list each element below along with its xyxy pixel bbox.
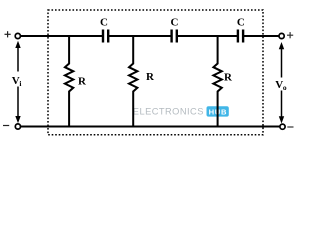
- svg-text:C: C: [100, 16, 108, 28]
- resistor R2: [129, 35, 137, 128]
- wire top: input terminal to C1: [20, 35, 103, 37]
- svg-text:R: R: [146, 71, 155, 83]
- capacitor C1: [103, 30, 108, 43]
- label Vo: [275, 79, 287, 92]
- wire bottom rail: [21, 126, 281, 128]
- terminal bottom-right (− output): [280, 124, 285, 129]
- terminal top-right (+ output): [279, 33, 284, 38]
- arrow Vi (input voltage, double headed): [15, 41, 20, 123]
- svg-text:C: C: [171, 16, 179, 28]
- svg-text:R: R: [78, 76, 87, 88]
- dotted enclosure box: [48, 10, 263, 135]
- svg-text:ELECTRONICS: ELECTRONICS: [133, 106, 204, 116]
- arrow Vo (output voltage, double headed): [279, 42, 284, 124]
- svg-text:C: C: [237, 16, 245, 28]
- wire top: C2 to C3: [177, 35, 238, 37]
- svg-text:i: i: [19, 79, 21, 88]
- svg-text:o: o: [283, 83, 287, 92]
- minus sign output: [287, 126, 293, 128]
- capacitor C2: [172, 30, 177, 43]
- plus sign output: [287, 32, 293, 38]
- watermark HUB badge: [207, 106, 229, 116]
- terminal bottom-left (− input): [15, 124, 20, 129]
- resistor R1: [65, 35, 73, 128]
- wire top: C1 to C2: [108, 35, 171, 37]
- minus sign input: [3, 125, 9, 127]
- plus sign input: [5, 31, 11, 37]
- resistor R3: [213, 35, 221, 128]
- svg-text:R: R: [224, 71, 233, 83]
- terminal top-left (+ input): [15, 33, 20, 38]
- capacitor C3: [238, 30, 243, 43]
- wire top: C3 to output terminal: [243, 35, 279, 37]
- label Vi: [12, 75, 22, 88]
